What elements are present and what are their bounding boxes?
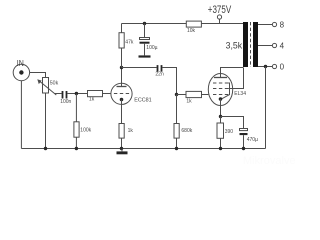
rail junction dot R8 [219, 147, 222, 150]
node B junction dot [120, 66, 123, 69]
wire V2 cathode down to node F [220, 99, 222, 117]
node A junction dot [75, 92, 78, 95]
rail junction dot C4 [242, 147, 245, 150]
potentiometer P1 50k [37, 78, 56, 96]
wire C2 to ground bar [144, 44, 146, 56]
wire V2 anode to transformer primary [221, 68, 244, 78]
resistor R5 680k [174, 124, 179, 139]
secondary tap 4 [258, 43, 277, 47]
wire pot bottom to ground rail [45, 93, 47, 149]
svg-text:22n: 22n [155, 72, 164, 78]
resistor R3 47k [119, 33, 124, 48]
secondary tap 8 [258, 22, 277, 26]
svg-text:EL34: EL34 [234, 91, 246, 97]
wire R1 to V1 grid [103, 93, 111, 95]
svg-text:680k: 680k [181, 128, 192, 134]
transformer T1 secondary winding [253, 22, 258, 67]
svg-text:IN: IN [17, 59, 24, 68]
node C junction dot [143, 22, 146, 25]
svg-text:Mikrovalve: Mikrovalve [243, 155, 296, 167]
svg-text:50k: 50k [50, 81, 59, 87]
svg-text:1k: 1k [128, 128, 134, 134]
rail junction dot R2 [75, 147, 78, 150]
triode V1 ECC81 [111, 83, 132, 104]
wire R8 to ground rail [220, 138, 222, 148]
capacitor C1 100n [63, 91, 67, 99]
wire R3 up to top rail corner [121, 24, 123, 33]
ground symbol [117, 149, 128, 155]
svg-text:100µ: 100µ [146, 45, 157, 51]
wire V1 cathode down to R4 [121, 100, 123, 124]
resistor R6 1k grid stopper [177, 91, 202, 97]
secondary tap 0 [258, 64, 277, 68]
wire node D down to R5 [176, 95, 178, 124]
pentode V2 EL34 [208, 74, 232, 106]
wire node C down to C2 [144, 24, 146, 38]
rail junction dot R4 [120, 147, 123, 150]
ground bar under C2 [139, 55, 151, 57]
wire tap 0 down to ground rail [265, 67, 267, 149]
resistor R7 10k [186, 21, 201, 27]
wire node F down to R8 [220, 117, 222, 124]
svg-text:0: 0 [280, 63, 285, 72]
resistor R4 1k cathode [119, 124, 124, 139]
wire C3 to node D [162, 68, 176, 95]
top supply rail [122, 23, 244, 25]
rail junction dot pot [44, 147, 47, 150]
wire R4 to ground rail [121, 138, 123, 148]
wire R6 to V2 grid [202, 94, 209, 96]
wire jack to pot top [30, 73, 46, 78]
svg-text:10k: 10k [187, 28, 196, 34]
resistor R8 390 [217, 123, 224, 138]
svg-text:100k: 100k [80, 128, 91, 134]
svg-text:390: 390 [225, 129, 234, 135]
wire node B up to R3 [121, 48, 123, 68]
svg-text:3,5k: 3,5k [226, 41, 243, 51]
wire jack sleeve down to ground rail [20, 81, 22, 149]
node F junction dot [219, 115, 222, 118]
wire pot wiper to C1 [55, 93, 62, 95]
svg-text:+375V: +375V [208, 4, 232, 16]
wire R2 to ground rail [75, 137, 77, 148]
terminal +375V [217, 15, 221, 24]
node E junction dot on tap 0 [264, 65, 267, 68]
svg-text:1k: 1k [89, 97, 95, 103]
svg-text:8: 8 [280, 20, 285, 29]
wire node F to C4 [221, 117, 244, 129]
wire node B to C3 [122, 67, 157, 69]
capacitor C4 470u electrolytic [240, 129, 248, 136]
svg-text:100n: 100n [60, 99, 71, 105]
ground rail [21, 148, 265, 150]
resistor R1 1k grid [88, 91, 103, 97]
wire node A down to R2 [75, 94, 77, 122]
input jack J1 [13, 64, 29, 80]
capacitor C2 100u electrolytic [140, 38, 150, 44]
wire C1 to node A [67, 93, 87, 95]
svg-text:ECC81: ECC81 [134, 98, 151, 104]
capacitor C3 22n [158, 65, 162, 72]
resistor R2 100k [74, 122, 79, 137]
svg-text:4: 4 [280, 42, 285, 51]
wire V1 anode up to node B [121, 68, 123, 87]
node D junction dot [175, 93, 178, 96]
svg-text:1k: 1k [186, 99, 192, 105]
rail junction dot R5 [175, 147, 178, 150]
transformer T1 core [250, 22, 252, 67]
wire C4 to ground rail [243, 135, 245, 148]
svg-text:47k: 47k [125, 40, 134, 46]
svg-text:470µ: 470µ [247, 137, 258, 143]
wire V2 screen grid to anode node [228, 68, 243, 89]
wire R5 to ground rail [176, 138, 178, 148]
transformer T1 primary winding [243, 22, 248, 67]
